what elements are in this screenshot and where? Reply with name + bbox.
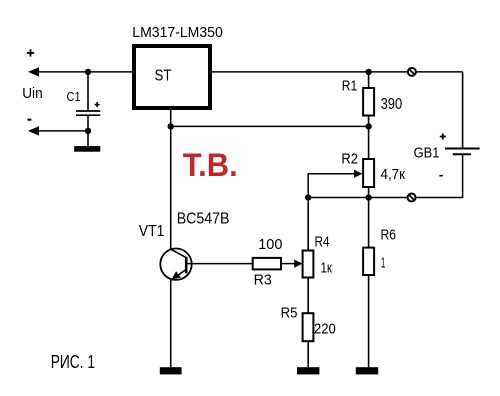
label + (C1 polarity) — [95, 102, 100, 107]
resistor R1 — [363, 88, 374, 116]
arrowhead input - (points left) — [28, 126, 39, 135]
wire R1 top stub — [368, 72, 370, 88]
svg-text:1к: 1к — [321, 260, 333, 277]
wire regulator adj pin — [170, 108, 172, 126]
node R1 top — [365, 69, 371, 75]
wire R1 bottom stub — [368, 116, 370, 127]
svg-text:1: 1 — [381, 255, 386, 272]
battery GB1 — [445, 149, 480, 155]
svg-text:R2: R2 — [341, 150, 358, 167]
wire R6 to ground — [368, 275, 370, 367]
regulator U1 ST (LM317-LM350) — [134, 46, 210, 108]
svg-text:R1: R1 — [342, 77, 357, 94]
svg-text:РИС. 1: РИС. 1 — [51, 352, 95, 372]
svg-text:LM317-LM350: LM317-LM350 — [132, 24, 223, 41]
wire battery - side to bottom rail — [308, 154, 462, 197]
svg-text:Uin: Uin — [22, 85, 43, 102]
label + (battery) — [440, 134, 446, 140]
wire R2 bottom stub — [368, 187, 370, 198]
wire input + rail to regulator — [36, 71, 134, 73]
resistor R6 — [363, 248, 374, 275]
wire C1 top — [87, 72, 89, 111]
ground VT1 emitter — [160, 367, 182, 374]
wire emitter to ground — [170, 279, 172, 367]
potentiometer R4 — [303, 251, 314, 278]
label + (input) — [27, 49, 34, 56]
svg-text:R4: R4 — [315, 233, 330, 250]
label - (input) — [27, 119, 31, 121]
arrowhead R2 wiper (points right) — [354, 170, 362, 178]
svg-text:100: 100 — [258, 236, 282, 253]
ground C1 — [74, 146, 100, 152]
arrowhead R4 wiper (points right) — [294, 260, 302, 268]
wire R4 top stub — [307, 198, 309, 251]
node input - / C1 bottom — [85, 128, 91, 134]
wire R4 to R5 — [307, 278, 309, 314]
wire R5 to ground — [307, 341, 309, 367]
wire regulator output to battery — [210, 71, 463, 73]
connector X2 (circle with slash) — [408, 194, 416, 202]
label - (battery) — [439, 175, 442, 177]
svg-text:C1: C1 — [67, 89, 81, 104]
resistor R5 — [303, 313, 314, 341]
wire R2 top stub — [368, 126, 370, 159]
wire R3 to R4 wiper — [281, 263, 296, 265]
svg-text:T.B.: T.B. — [183, 147, 238, 183]
svg-text:R3: R3 — [254, 272, 272, 289]
svg-text:R6: R6 — [381, 227, 397, 244]
ground R6 — [356, 367, 378, 374]
svg-text:4,7к: 4,7к — [381, 166, 406, 183]
node R2 bottom — [365, 194, 371, 200]
wire input - rail — [36, 130, 88, 132]
wire base to R3 — [186, 263, 253, 265]
svg-text:GB1: GB1 — [414, 145, 440, 162]
wire R2 wiper — [308, 174, 355, 198]
wire R6 top — [368, 198, 370, 248]
node regulator adj pin — [168, 123, 174, 129]
svg-text:ST: ST — [155, 68, 172, 85]
svg-text:VT1: VT1 — [139, 223, 165, 240]
node R1-R2 adj rail right — [365, 123, 371, 129]
svg-text:220: 220 — [314, 321, 336, 338]
ground R5 — [297, 367, 319, 374]
capacitor C1 — [76, 111, 100, 115]
resistor R3 — [253, 258, 281, 270]
wire adj rail — [171, 125, 369, 127]
node input + / C1 top — [85, 69, 91, 75]
wire C1 bottom — [87, 115, 89, 146]
svg-text:R5: R5 — [281, 304, 298, 321]
wire collector — [170, 126, 172, 249]
transistor VT1 — [160, 249, 191, 281]
arrowhead input + (points left) — [28, 67, 39, 76]
svg-text:390: 390 — [381, 96, 403, 113]
potentiometer R2 — [363, 159, 374, 187]
connector X1 (circle with slash) — [408, 68, 416, 76]
wire battery + side — [462, 72, 464, 149]
node R4 top rail — [305, 194, 311, 200]
svg-text:BC547B: BC547B — [177, 211, 230, 228]
